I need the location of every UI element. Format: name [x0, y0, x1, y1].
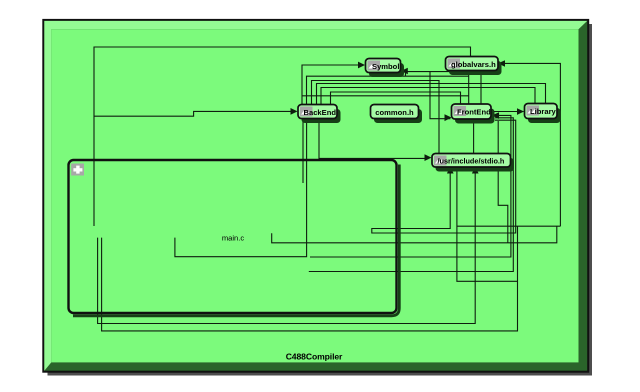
wire branch down to FrontEnd left — [430, 72, 451, 119]
wire U channel to BackEnd bottom — [175, 119, 307, 257]
wire bundle to stdio top — [312, 81, 440, 154]
wire FrontEnd to Library — [492, 111, 524, 113]
wire FrontEnd nested b — [309, 118, 514, 272]
svg-text:BackEnd: BackEnd — [304, 108, 337, 117]
svg-text:FrontEnd: FrontEnd — [457, 108, 491, 117]
panel light bevel (top+left) — [44, 21, 587, 371]
plus icon — [71, 164, 84, 176]
node BackEnd — [298, 105, 341, 124]
node FrontEnd — [452, 104, 495, 124]
wire BackEnd to Symbol — [302, 65, 359, 105]
svg-text:Symbol: Symbol — [372, 62, 399, 71]
svg-text:Library: Library — [530, 107, 557, 116]
wire globalvars bottom to FrontEnd top — [480, 69, 482, 105]
panel face — [51, 29, 578, 362]
wire bundle to Library top b — [321, 88, 535, 105]
wire bundle lane b — [307, 76, 469, 104]
arrow into stdio bottom at 475 — [472, 167, 479, 174]
node common.h — [371, 105, 423, 124]
node Symbol — [366, 59, 405, 78]
wire bundle to FrontEnd top a — [331, 92, 461, 105]
svg-text:main.c: main.c — [222, 234, 245, 243]
wire bundle to FrontEnd top b — [302, 95, 469, 97]
wire frame: left vertical + top run into globalvars.h — [94, 47, 471, 226]
arrow into stdio bottom at 450 — [447, 167, 454, 174]
wire into BackEnd from left — [94, 111, 292, 116]
wire jog down right — [498, 121, 508, 243]
svg-text:globalvars.h: globalvars.h — [451, 60, 496, 69]
wire bundle to Library top a — [317, 84, 546, 105]
node /usr/include/stdio.h — [432, 154, 514, 172]
panel body (dark bevel base) — [43, 20, 588, 372]
wire FrontEnd nested c to stdio bottom — [372, 120, 516, 233]
wire FrontEnd nested a — [310, 115, 511, 257]
main.c box — [69, 160, 397, 313]
wire FrontEnd bottom to stdio top — [473, 119, 475, 154]
node globalvars.h — [446, 57, 502, 76]
arrow into BackEnd left — [291, 108, 298, 115]
wire bottom loop b — [102, 226, 518, 331]
wire stub below BackEnd — [302, 119, 304, 184]
arrow into globalvars right — [498, 60, 505, 67]
wire globalvars right loop — [502, 63, 560, 226]
panel shadow — [48, 24, 593, 376]
wire globalvars loop lower — [272, 226, 557, 243]
arrow into Symbol left — [358, 62, 365, 69]
wire bundle to Symbol right arrow — [401, 72, 469, 104]
wire bridge to globalvars loop — [457, 225, 561, 227]
svg-text:common.h: common.h — [375, 108, 414, 117]
wire stdio bottom long loop — [98, 170, 476, 324]
wire BackEnd to stdio — [319, 119, 426, 159]
svg-text:C488Compiler: C488Compiler — [286, 352, 343, 362]
arrow into FrontEnd right-bottom — [492, 112, 499, 119]
svg-text:/usr/include/stdio.h: /usr/include/stdio.h — [438, 156, 505, 165]
wire Symbol bottom drop — [405, 72, 407, 77]
main.c box shadow — [73, 165, 399, 316]
node Library — [525, 104, 561, 124]
arrow into Symbol right — [401, 68, 408, 74]
arrow into FrontEnd left-bottom — [445, 114, 452, 121]
arrow into Library left — [517, 108, 524, 115]
arrow into stdio left — [425, 154, 432, 161]
wire mid vertical right — [457, 167, 518, 281]
